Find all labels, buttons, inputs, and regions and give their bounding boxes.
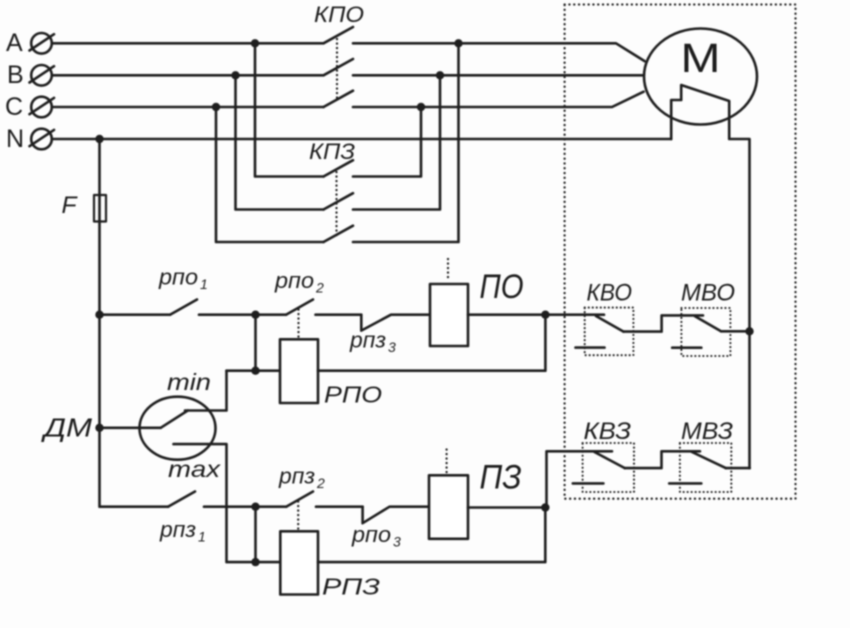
svg-text:ПЗ: ПЗ — [480, 459, 522, 497]
svg-text:2: 2 — [315, 280, 324, 296]
svg-text:КВО: КВО — [587, 280, 633, 307]
svg-text:ДМ: ДМ — [40, 413, 92, 443]
svg-text:рпз: рпз — [349, 328, 386, 353]
svg-text:МВО: МВО — [681, 280, 735, 307]
svg-text:max: max — [168, 456, 222, 482]
svg-text:2: 2 — [316, 475, 325, 491]
svg-text:ПО: ПО — [480, 268, 524, 306]
svg-text:КПО: КПО — [314, 2, 364, 27]
svg-text:1: 1 — [198, 529, 206, 545]
svg-text:3: 3 — [393, 534, 401, 550]
svg-text:рпо: рпо — [351, 522, 391, 547]
svg-text:B: B — [7, 61, 24, 89]
svg-text:A: A — [6, 29, 23, 57]
svg-text:min: min — [167, 369, 211, 395]
svg-text:M: M — [681, 35, 721, 81]
svg-text:РПЗ: РПЗ — [322, 574, 380, 600]
svg-text:F: F — [62, 192, 78, 219]
svg-text:МВЗ: МВЗ — [681, 418, 733, 445]
svg-text:КПЗ: КПЗ — [309, 139, 356, 164]
svg-text:рпо: рпо — [274, 268, 314, 293]
svg-text:РПО: РПО — [324, 382, 382, 408]
svg-text:рпо: рпо — [158, 265, 198, 290]
svg-text:рпз: рпз — [159, 517, 196, 542]
svg-text:C: C — [5, 93, 23, 121]
svg-text:N: N — [6, 125, 24, 153]
svg-text:1: 1 — [200, 276, 208, 292]
svg-text:КВЗ: КВЗ — [584, 418, 632, 445]
svg-text:рпз: рпз — [278, 464, 315, 489]
svg-text:3: 3 — [388, 339, 396, 355]
